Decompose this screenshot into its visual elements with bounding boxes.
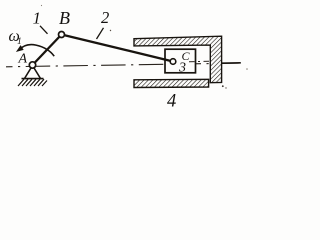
omega-1 rotation arc [19, 45, 54, 57]
cylinder 4 bottom wall (hatched strip) [134, 79, 209, 87]
svg-text:1: 1 [17, 37, 22, 47]
scan specks [110, 30, 111, 31]
joint B circle [59, 32, 65, 38]
leader line for 2 [97, 28, 104, 39]
rod stub right of wall [222, 62, 241, 64]
ground base line [22, 78, 44, 80]
crank 1 (link A-B) [33, 35, 62, 66]
svg-text:B: B [59, 8, 70, 28]
ground hatching [18, 79, 47, 86]
centerline inside slider [189, 60, 210, 63]
slider block 3 [165, 49, 196, 73]
omega-1 arrowhead [17, 46, 24, 52]
svg-text:A: A [18, 52, 28, 67]
svg-text:3: 3 [178, 61, 186, 76]
leader line for 1 [40, 26, 48, 34]
cylinder 4 top+right wall (hatched L-shape) [134, 36, 222, 82]
svg-text:1: 1 [33, 8, 42, 27]
pivot support triangle at A [25, 66, 41, 79]
svg-text:2: 2 [101, 8, 109, 27]
joint C circle (pin in slider) [170, 59, 176, 65]
link 2 (connecting rod B-C) [62, 35, 174, 62]
centerline (dash-dot axis through A and slider) [6, 63, 241, 67]
svg-text:4: 4 [167, 91, 176, 110]
pivot A (revolute joint circle) [29, 62, 35, 68]
